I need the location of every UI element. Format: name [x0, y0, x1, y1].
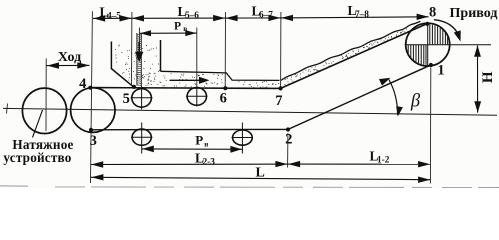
- Pв extension ticks: [138, 28, 140, 44]
- svg-text:5–6: 5–6: [185, 11, 199, 21]
- dimension L6-7: [225, 17, 280, 19]
- svg-text:2-3: 2-3: [203, 157, 216, 167]
- arrowhead on return incline (angle ref): [379, 78, 391, 86]
- svg-text:1-2: 1-2: [377, 155, 390, 165]
- drive pulley (node 1/8): [406, 23, 450, 66]
- dimension Ход: [47, 64, 90, 66]
- dimension L1-2: [288, 163, 431, 165]
- pulley vertical diameter: [427, 23, 429, 66]
- svg-text:в: в: [183, 24, 187, 33]
- node 6: [223, 86, 227, 90]
- svg-text:8: 8: [429, 5, 436, 21]
- roller (lower) right: [233, 130, 253, 145]
- extension line left (stroke travel): [45, 59, 47, 132]
- dimension Pв: [140, 32, 197, 34]
- hopper right wall: [160, 40, 162, 71]
- material stipple: loading band: [147, 73, 222, 87]
- node 1: [429, 63, 433, 67]
- material stipple: hopper: [115, 45, 160, 85]
- leader line to tensioning device label: [33, 110, 43, 138]
- roller (upper) at node 5: [132, 89, 152, 107]
- dimension L2-3: [91, 163, 288, 165]
- pulley horizontal axis: [405, 44, 492, 46]
- node 4: [88, 86, 92, 90]
- tension pulley right (tail pulley): [71, 88, 115, 133]
- svg-text:5: 5: [123, 91, 130, 107]
- dimension L7-8: [281, 17, 429, 18]
- extension line through node 4 and node 3: [91, 11, 93, 183]
- svg-text:6: 6: [220, 90, 227, 106]
- extension line below node 1: [429, 68, 431, 184]
- svg-text:Ход: Ход: [58, 50, 81, 65]
- node 3: [89, 128, 93, 132]
- angle β arc: [389, 80, 398, 115]
- svg-text:4–5: 4–5: [107, 12, 121, 22]
- belt movement arrow: [170, 79, 202, 81]
- svg-text:Н: Н: [480, 71, 496, 83]
- roller (upper) near node 6: [187, 88, 206, 106]
- svg-text:4: 4: [79, 76, 86, 92]
- flow arrow down in stream: [138, 42, 140, 53]
- svg-text:н: н: [204, 141, 208, 149]
- svg-text:7–8: 7–8: [355, 10, 369, 20]
- wire: return belt node3-node2: [91, 128, 288, 130]
- svg-text:3: 3: [90, 133, 97, 149]
- extension line at node 6: [224, 12, 226, 88]
- svg-text:Р: Р: [195, 133, 203, 148]
- svg-text:7: 7: [275, 93, 282, 109]
- dimension Pн: [142, 148, 242, 150]
- tension pulley left (node area): [22, 88, 66, 133]
- node 8: [425, 22, 429, 26]
- dimension L4-5: [93, 17, 132, 19]
- svg-text:6–7: 6–7: [259, 11, 273, 21]
- wire: pulley axis / horizontal baseline: [3, 108, 497, 115]
- dimension L5-6: [132, 17, 226, 19]
- material stipple: band 6-7: [239, 81, 280, 87]
- svg-text:Р: Р: [174, 20, 181, 32]
- svg-text:β: β: [410, 91, 421, 111]
- dimension H: [477, 46, 479, 113]
- node 2: [286, 127, 290, 131]
- material stipple: incline: [285, 25, 419, 85]
- node 5: [132, 85, 136, 89]
- wire: carry belt horizontal run node4-node7: [90, 87, 280, 90]
- hopper left wall: [111, 42, 133, 88]
- material surface on loading section: [161, 71, 280, 80]
- svg-text:1: 1: [437, 62, 444, 78]
- dimension L (total): [91, 177, 430, 179]
- arrowhead at baseline: [396, 106, 403, 116]
- tick at left end of baseline: [7, 104, 8, 114]
- extension line at node 7: [280, 12, 282, 88]
- svg-text:L: L: [256, 165, 265, 180]
- rotation direction arrow: [434, 20, 459, 36]
- scan artifact bottom edge: [55, 186, 499, 189]
- extension line at hopper edge (L4-5 / L5-6): [131, 12, 133, 85]
- falling material stream (hatched band): [136, 33, 138, 86]
- material surface on incline (wavy): [281, 21, 421, 80]
- svg-text:устройство: устройство: [3, 150, 71, 165]
- pulley hatching: [408, 24, 447, 65]
- extension line below node 2: [287, 133, 289, 168]
- roller (lower) left: [132, 129, 151, 145]
- wire: return belt incline node2-node1: [288, 64, 433, 129]
- svg-text:2: 2: [285, 132, 292, 148]
- node 7: [279, 86, 283, 90]
- svg-text:Привод: Привод: [450, 6, 498, 21]
- wire: carry belt incline node7-node8: [281, 24, 428, 89]
